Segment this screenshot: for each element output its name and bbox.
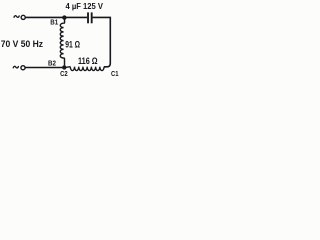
AC source tilde (top terminal) [14,16,19,18]
resistor 91 ohm (vertical coil style) [60,23,63,58]
wire (B1 down to resistor top) [63,18,66,24]
svg-text:4 µF 125 V: 4 µF 125 V [66,2,104,11]
wire (resistor bottom to C2) [63,58,66,65]
inductor 116 ohm (horizontal coil) [70,67,104,71]
svg-text:B1: B1 [50,18,58,27]
svg-text:C1: C1 [111,69,119,78]
wire (capacitor to top-right corner, down right side, to bottom-right corner) [93,17,111,66]
capacitor 4uF right plate [91,12,93,23]
node C2 junction dot [62,65,66,69]
terminal T2 (bottom, open circle) [21,66,25,70]
wire (top horizontal, terminal to capacitor) [26,16,88,18]
svg-text:B2: B2 [48,58,56,67]
AC source tilde (bottom terminal) [13,66,18,68]
svg-text:70 V 50 Hz: 70 V 50 Hz [1,38,43,49]
terminal T1 (top, open circle) [21,15,25,19]
capacitor 4uF left plate [87,12,89,23]
svg-text:C2: C2 [60,69,68,78]
wire (C2 to inductor lead-in) [66,66,70,69]
svg-text:116 Ω: 116 Ω [78,56,98,66]
svg-text:91 Ω: 91 Ω [65,39,80,49]
wire (bottom horizontal, terminal to C2) [25,67,63,69]
node B1 junction dot [62,15,66,19]
